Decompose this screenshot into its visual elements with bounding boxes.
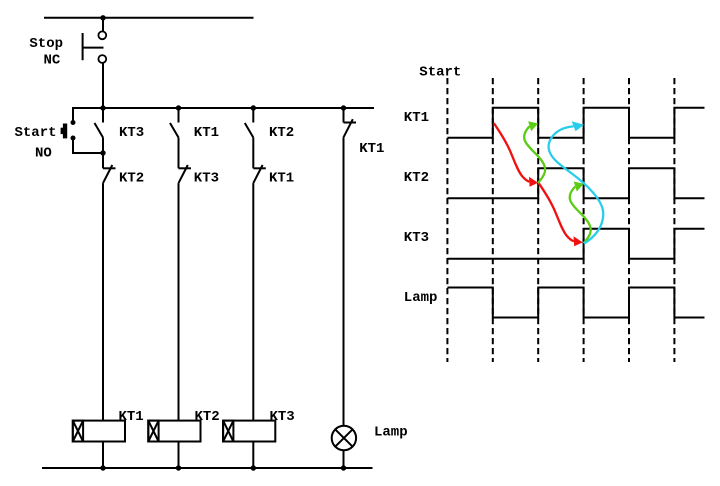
waveform KT1 <box>447 108 704 138</box>
contact KT1 NC branch 4 bar <box>344 122 357 124</box>
svg-text:KT3: KT3 <box>270 409 295 425</box>
svg-text:KT1: KT1 <box>404 110 429 126</box>
node rung junction branch 1 <box>100 105 105 110</box>
node bottom rail junction branch 2 <box>176 465 181 470</box>
contact KT1 NO branch 2 blade <box>170 123 179 138</box>
svg-text:Start: Start <box>419 65 461 81</box>
wire start-branch left drop <box>72 107 74 123</box>
svg-text:KT2: KT2 <box>269 125 294 141</box>
svg-text:NC: NC <box>44 52 61 68</box>
wire from Stop button down to rung <box>102 63 104 108</box>
contact KT1 NO branch 2 stub <box>178 108 180 123</box>
wire main rung <box>73 107 374 109</box>
node junction on top rail <box>100 15 105 20</box>
node rung junction branch 3 <box>251 105 256 110</box>
wire branch 2 between contacts <box>178 138 180 169</box>
svg-text:Stop: Stop <box>29 36 63 52</box>
coil KT3 X diagonal 2 <box>223 421 233 442</box>
contact KT1 NC branch 4 blade <box>344 119 353 137</box>
svg-text:KT2: KT2 <box>195 409 220 425</box>
svg-text:KT1: KT1 <box>119 409 144 425</box>
wire from top rail to Stop button <box>102 18 104 32</box>
contact KT2 NC branch 1 blade <box>103 165 112 183</box>
contact KT2 NO branch 3 blade <box>245 123 254 138</box>
svg-text:KT2: KT2 <box>404 170 429 186</box>
wire branch 2 down to coil KT2 <box>178 183 180 421</box>
coil KT1 timer cell <box>73 421 83 442</box>
svg-text:KT1: KT1 <box>194 125 219 141</box>
coil KT2 X diagonal 2 <box>148 421 158 442</box>
coil KT3 X diagonal 1 <box>223 421 233 442</box>
pushbutton SB1 Stop NC bottom contact circle <box>98 55 106 63</box>
wire start-branch bottom <box>73 138 103 153</box>
coil KT2 timer cell <box>148 421 158 442</box>
wire branch 1 between contacts <box>102 138 104 169</box>
svg-text:KT3: KT3 <box>194 171 219 187</box>
coil KT1 box <box>73 421 125 442</box>
svg-text:KT2: KT2 <box>119 171 144 187</box>
node Start button lower terminal <box>71 136 76 141</box>
node Start button upper terminal <box>71 120 76 125</box>
arrow red KT2 rise to KT3 rise <box>538 183 574 242</box>
coil KT3 timer cell <box>223 421 233 442</box>
gridline t3 dashed <box>537 78 539 362</box>
svg-text:NO: NO <box>35 146 52 162</box>
contact KT1 NC branch 3 bar <box>253 167 265 169</box>
pushbutton SB1 Stop actuator link <box>83 47 104 49</box>
contact KT2 NO branch 3 stub <box>252 108 254 123</box>
contact KT1 NC branch 3 blade <box>253 165 262 183</box>
gridline t5 dashed <box>628 78 630 362</box>
lamp HL1 circle <box>332 426 356 450</box>
svg-text:Lamp: Lamp <box>404 290 438 306</box>
svg-text:KT3: KT3 <box>119 125 144 141</box>
waveform KT2 <box>447 168 704 198</box>
wire coil KT3 to bottom rail <box>252 442 254 469</box>
gridline t1 dashed <box>446 78 448 362</box>
coil KT2 box <box>148 421 200 442</box>
contact KT1 NC branch 4 stub <box>343 108 345 123</box>
wire coil KT2 to bottom rail <box>178 442 180 469</box>
node branch 1 junction with start branch <box>100 150 105 155</box>
coil KT3 box <box>223 421 275 442</box>
pushbutton SB1 Stop actuator bar <box>82 33 84 60</box>
waveform KT3 <box>447 229 704 259</box>
svg-text:KT1: KT1 <box>269 171 294 187</box>
node bottom rail junction branch 3 <box>251 465 256 470</box>
arrow green KT2 rise to KT1 fall <box>524 126 545 183</box>
node rung junction branch 4 <box>341 105 346 110</box>
pushbutton SB2 Start NO plunger <box>61 128 63 134</box>
contact KT3 NO branch 1 blade <box>95 123 104 138</box>
svg-text:KT3: KT3 <box>404 230 429 246</box>
svg-text:Lamp: Lamp <box>374 425 408 441</box>
arrow red KT1 rise to KT2 rise <box>494 123 530 182</box>
gridline t6 dashed <box>673 78 675 362</box>
arrow green KT3 rise to KT2 fall <box>570 187 591 244</box>
coil KT1 X diagonal 1 <box>73 421 83 442</box>
contact KT3 NC branch 2 blade <box>179 165 188 183</box>
lamp HL1 X diagonal 1 <box>335 429 352 446</box>
waveform Lamp <box>447 288 704 318</box>
contact KT3 NO branch 1 stub <box>102 108 104 123</box>
pushbutton SB2 Start NO cap <box>63 124 67 139</box>
node bottom rail junction branch 4 <box>341 465 346 470</box>
node rung junction branch 2 <box>176 105 181 110</box>
wire branch 1 down to coil KT1 <box>102 183 104 421</box>
wire branch 4 down to lamp <box>343 137 345 426</box>
wire branch 3 between contacts <box>252 138 254 169</box>
svg-text:Start: Start <box>15 125 57 141</box>
wire top supply rail <box>44 17 254 19</box>
arrow cyan KT3 rise to KT1 rise <box>549 126 604 243</box>
wire bottom return rail <box>42 467 373 469</box>
coil KT2 X diagonal 1 <box>148 421 158 442</box>
contact KT2 NC branch 1 bar <box>103 167 116 169</box>
gridline t4 dashed <box>583 78 585 362</box>
gridline t2 dashed <box>492 78 494 362</box>
contact KT3 NC branch 2 bar <box>179 167 192 169</box>
svg-text:KT1: KT1 <box>359 141 384 157</box>
wire lamp to bottom rail <box>343 450 345 468</box>
wire branch 3 down to coil KT3 <box>252 183 254 421</box>
lamp HL1 X diagonal 2 <box>335 429 352 446</box>
pushbutton SB1 Stop NC top contact circle <box>98 31 106 39</box>
node bottom rail junction branch 1 <box>100 465 105 470</box>
wire coil KT1 to bottom rail <box>102 442 104 469</box>
coil KT1 X diagonal 2 <box>73 421 83 442</box>
